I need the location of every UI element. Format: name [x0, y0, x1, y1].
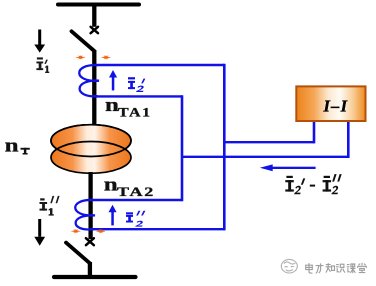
wire relay right stub: [347, 121, 350, 159]
svg-text:I–I: I–I: [323, 96, 349, 115]
wire CT2 bottom terminal to node B: [91, 228, 224, 230]
busbar bottom: [54, 275, 136, 279]
wire branch B to relay left: [224, 141, 314, 143]
wire feeder top segment: [92, 5, 96, 27]
arrow I1'' direction (black down): [34, 219, 45, 246]
star fault mark left bottom: [71, 229, 81, 234]
arrow I1' direction (black down): [34, 30, 45, 53]
star fault mark right top: [101, 55, 111, 60]
svg-text:TA1: TA1: [118, 106, 152, 120]
label I2': [128, 77, 145, 92]
star fault mark left top: [75, 55, 85, 60]
watermark logo: [281, 259, 297, 273]
wire CT1 top terminal to node B: [95, 64, 224, 66]
wire feeder bottom segment: [88, 262, 92, 277]
CT nTA1 secondary coil: [79, 65, 99, 96]
transformer nT winding 2: [51, 142, 131, 174]
arrow I2'' (blue up): [109, 205, 117, 226]
wire feeder lower segment: [88, 172, 92, 239]
label nTA2: [104, 173, 155, 199]
wire CT1 bottom terminal to node A: [95, 95, 182, 97]
breaker QF1 blade: [72, 31, 95, 51]
breaker QF2 blade: [66, 243, 90, 264]
wire feeder mid segment: [92, 50, 96, 126]
breaker QF2 contact cross: [86, 238, 94, 245]
wire branch A to relay right: [182, 156, 348, 158]
arrow I2' (blue up): [109, 70, 117, 90]
wire CT2 top terminal to node A: [91, 199, 182, 201]
transformer nT winding 1: [51, 125, 131, 157]
star fault mark right bottom: [96, 229, 106, 234]
relay box I-I: [296, 86, 365, 121]
svg-text:TA2: TA2: [117, 186, 155, 200]
label nT: [5, 135, 30, 156]
busbar top: [58, 3, 139, 7]
wire node A vertical: [181, 95, 184, 201]
CT nTA2 secondary coil: [75, 200, 95, 230]
label nTA1: [105, 94, 152, 120]
svg-text:n: n: [5, 135, 20, 156]
transformer winding1 outline overlap: [51, 125, 131, 157]
label I2' - I2'' formula: [285, 174, 341, 194]
wire relay left stub: [313, 121, 316, 144]
label I2'': [126, 211, 145, 227]
wire node B vertical: [223, 64, 226, 231]
label I1': [36, 57, 49, 73]
label I1'': [40, 196, 60, 216]
arrow differential current (blue left): [260, 164, 316, 171]
watermark text: [306, 263, 367, 273]
breaker QF1 contact cross: [91, 27, 98, 33]
